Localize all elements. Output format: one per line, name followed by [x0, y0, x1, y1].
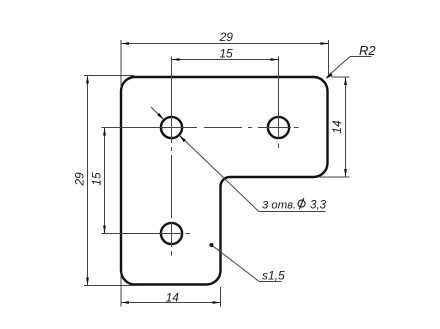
svg-text:s1,5: s1,5: [262, 269, 285, 283]
svg-text:15: 15: [90, 172, 104, 186]
svg-text:3,3: 3,3: [310, 199, 327, 212]
svg-text:3 отв.: 3 отв.: [262, 200, 296, 212]
svg-text:29: 29: [73, 172, 87, 187]
svg-text:14: 14: [330, 120, 344, 134]
svg-text:R2: R2: [359, 43, 376, 58]
svg-text:15: 15: [219, 46, 233, 60]
svg-text:29: 29: [219, 30, 234, 44]
svg-text:14: 14: [166, 291, 180, 305]
